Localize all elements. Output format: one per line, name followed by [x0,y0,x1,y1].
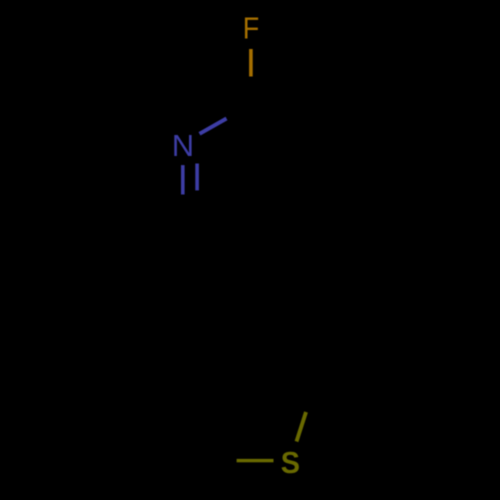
double bond N=C6 main line (N half) [181,165,185,194]
bond S-C2' (S half, horizontal) [237,459,274,462]
svg-text:F: F [243,12,259,46]
svg-text:S: S [281,446,300,480]
double bond N=C6 inner line (N half) [195,164,199,191]
bond S-C5' (S half, diagonal) [297,412,307,442]
bond N-C2 (N half, diagonal) [200,119,227,134]
svg-text:N: N [172,128,194,163]
bond C2-F (F half, vertical) [249,49,253,77]
